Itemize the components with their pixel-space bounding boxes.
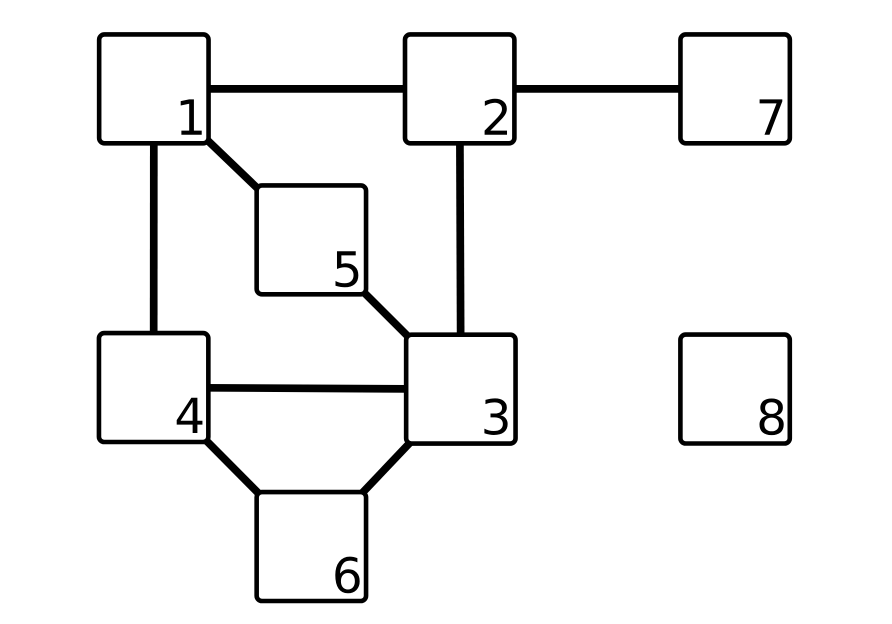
wire edge 1-2 bbox=[154, 85, 460, 93]
wire edge 5-3 bbox=[311, 240, 461, 389]
node box 7 bbox=[680, 34, 789, 143]
label 1 bbox=[181, 99, 202, 134]
node box 1 bbox=[99, 34, 208, 143]
wire edge 1-5 bbox=[154, 89, 312, 240]
wire edge 2-7 bbox=[460, 85, 735, 93]
wire edge 1-4 bbox=[150, 89, 158, 388]
label 6 bbox=[335, 557, 359, 594]
wire edge 4-3 bbox=[154, 388, 461, 390]
label 4 bbox=[177, 398, 203, 433]
node box 4 bbox=[99, 333, 208, 442]
label 2 bbox=[485, 99, 507, 135]
node box 8 bbox=[680, 335, 789, 444]
wire edge 3-6 bbox=[311, 389, 461, 546]
node box 5 bbox=[257, 185, 366, 294]
node box 2 bbox=[405, 34, 514, 143]
label 3 bbox=[484, 398, 507, 435]
wire edge 2-3 bbox=[460, 89, 461, 389]
label 5 bbox=[335, 251, 358, 287]
label 7 bbox=[760, 99, 783, 134]
label 8 bbox=[759, 398, 783, 435]
node box 6 bbox=[257, 492, 366, 601]
wire edge 4-6 bbox=[154, 388, 312, 547]
node box 3 bbox=[406, 335, 515, 444]
